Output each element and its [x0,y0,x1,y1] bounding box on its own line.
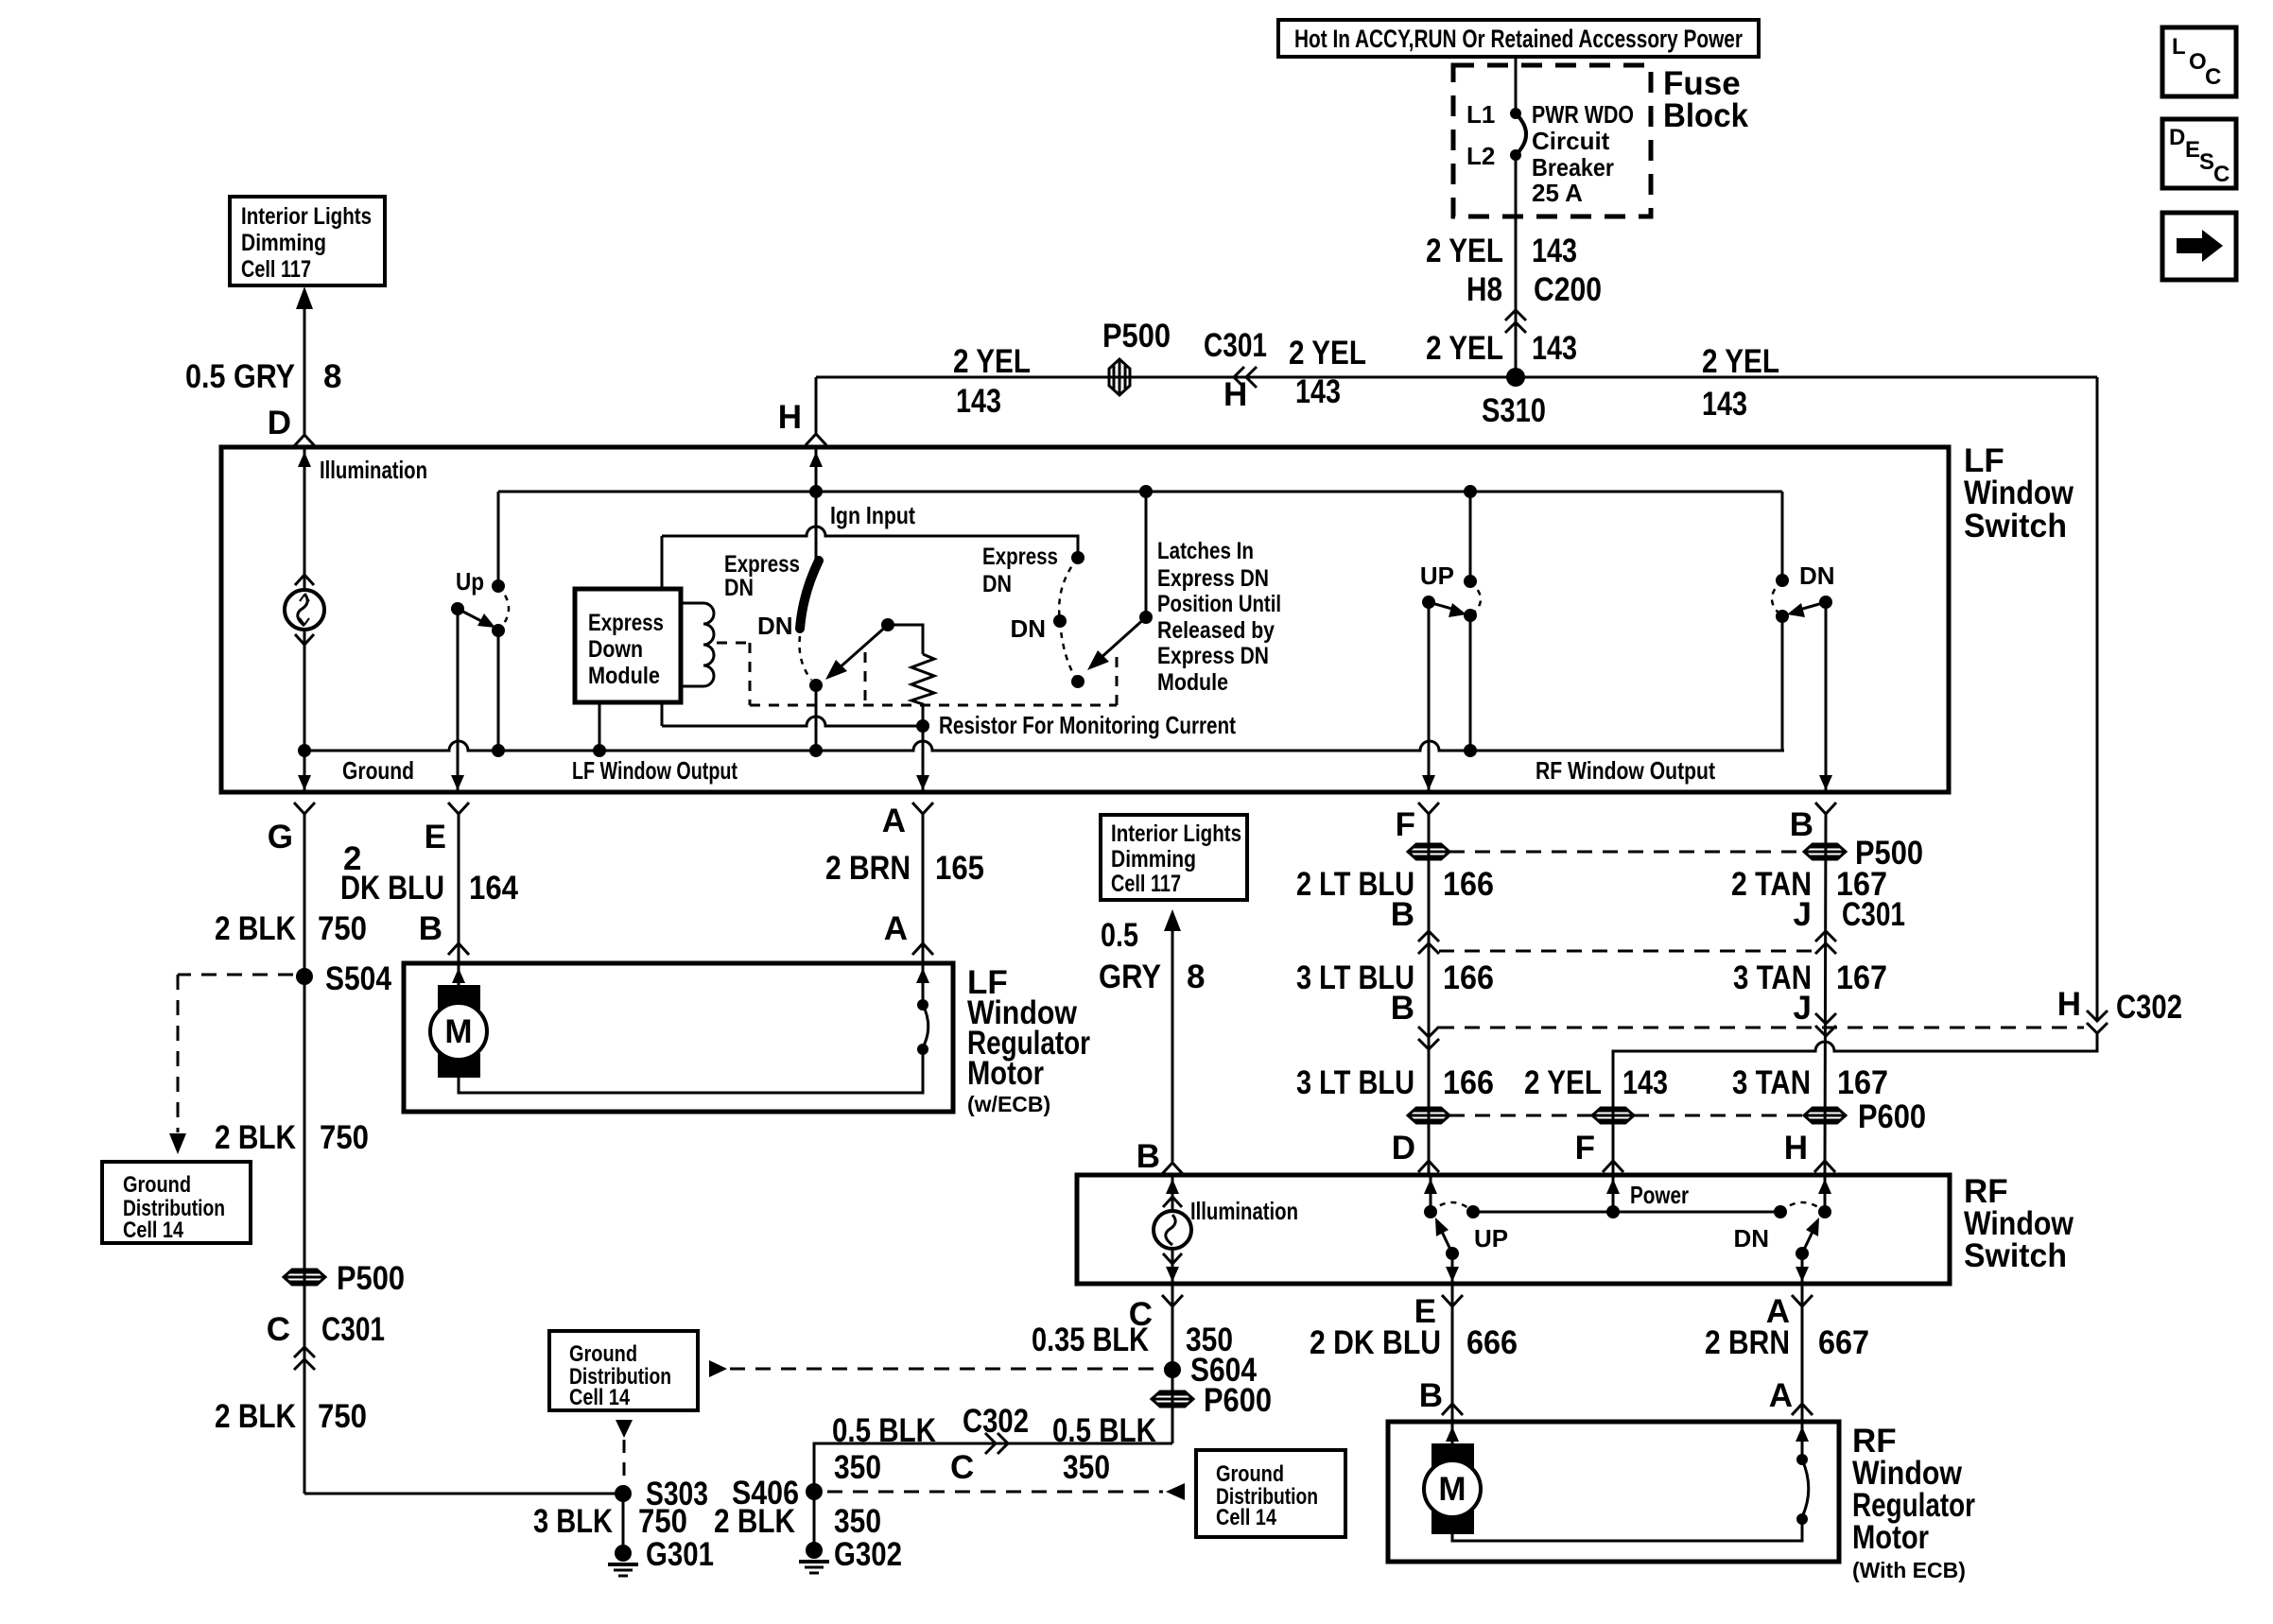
svg-text:164: 164 [469,870,518,907]
wire label 2 YEL 143 (right of S310) [1702,343,1779,423]
svg-text:8: 8 [323,358,341,395]
svg-text:H: H [778,399,802,436]
wire lamp to ground bus [304,630,306,751]
svg-text:H: H [1223,376,1247,413]
pin B chevron (RF switch) [1162,1163,1183,1174]
wire RF E pin to motor B [1451,1284,1454,1422]
lamp chevron above [295,575,314,585]
Up switch moving contact arrow [458,609,495,628]
pin G chevron [294,803,315,814]
wire Up lower contact to ground bus [497,631,500,751]
wire A pin to LF motor A [922,814,925,963]
svg-text:Cell 14: Cell 14 [569,1385,631,1410]
svg-text:C302: C302 [2116,989,2182,1026]
svg-text:143: 143 [1532,233,1577,269]
latch moving arrow [1087,617,1146,670]
svg-text:350: 350 [1063,1449,1110,1486]
svg-text:L: L [2172,34,2186,60]
svg-text:2 BRN: 2 BRN [1705,1324,1790,1361]
RF UP lower contact [1446,1247,1459,1260]
pin B chevron [1815,803,1836,814]
svg-text:Position Until: Position Until [1157,591,1281,617]
wire label 3 LT BLU 166 (lower) [1296,1064,1494,1101]
svg-text:166: 166 [1443,959,1494,996]
wire latch arm to resistor [888,625,923,654]
pin H chevron [806,434,826,445]
RF illumination lamp [1154,1211,1191,1249]
svg-text:Switch: Switch [1964,1237,2067,1274]
svg-text:750: 750 [638,1503,687,1540]
svg-text:(With ECB): (With ECB) [1852,1558,1966,1582]
wire ign junction down to express contact [815,492,818,560]
connector P500 (on B wire) [1804,844,1846,859]
svg-text:2 YEL: 2 YEL [1426,330,1503,367]
RF motor pin B chevron [1442,1404,1463,1415]
express latch arm arrow [825,625,888,680]
wire RF A pin to motor A [1801,1284,1804,1422]
connector P600 (on F wire) [1592,1108,1634,1123]
Express Down Module box [575,589,681,702]
RF A wire to box bottom (down arrow) [1796,1253,1809,1282]
svg-text:2 DK BLU: 2 DK BLU [1310,1324,1441,1361]
svg-text:(w/ECB): (w/ECB) [967,1092,1050,1116]
connector P600 (on D wire) [1408,1108,1449,1123]
pin F chevron [1418,803,1439,814]
module relay coil [681,603,714,686]
wire D pin to interior lights [304,309,306,434]
svg-text:2 YEL: 2 YEL [953,343,1031,380]
connector C301 chevrons (B wire) [1815,931,1836,954]
svg-text:166: 166 [1443,1064,1494,1101]
Up switch lower contact [492,624,505,637]
svg-text:H: H [2057,986,2081,1023]
connector C301 chevrons (on G wire) [294,1347,315,1370]
svg-text:B: B [1790,806,1813,843]
svg-text:C200: C200 [1534,271,1602,308]
svg-text:Motor: Motor [1852,1519,1929,1556]
wire S303 to G301 [622,1494,625,1550]
wire label 2 LT BLU 166 [1296,866,1494,903]
svg-text:C: C [2213,162,2230,187]
ECB contact upper [917,999,928,1011]
wire label 2 YEL 143 (right of C301) [1289,335,1366,410]
svg-text:B: B [1136,1138,1160,1175]
svg-text:Hot In ACCY,RUN Or Retained Ac: Hot In ACCY,RUN Or Retained Accessory Po… [1294,25,1743,53]
LF Window Switch label [1964,442,2074,544]
svg-text:750: 750 [318,1398,367,1435]
svg-text:M: M [444,1013,472,1050]
svg-text:750: 750 [318,910,367,947]
svg-text:G302: G302 [834,1536,902,1573]
svg-text:2 BLK: 2 BLK [215,1119,296,1156]
pin D chevron [294,435,315,446]
wire ground bus to G pin (down arrow) [298,751,311,790]
Express Down Module label [588,610,664,689]
wire into RF motor A (up arrow) [1796,1422,1809,1460]
Up switch top contact [492,579,505,593]
wire ign bus corner down to DN switch [1781,492,1784,580]
wire label 2 BLK 750 (below C301) [215,1398,367,1435]
LF Window Regulator Motor box [404,963,953,1112]
LF motor label [967,964,1090,1116]
svg-text:25 A: 25 A [1532,179,1583,207]
RF motor M symbol [1424,1443,1481,1534]
arrow below middle ground box [616,1420,633,1438]
RF Window Switch box [1077,1175,1950,1284]
pin C chevron (RF switch) [1162,1295,1183,1306]
Ign Input bus wire [498,491,1782,493]
svg-text:167: 167 [1837,1064,1888,1101]
wire RF B pin to interior lights [1171,931,1174,1162]
RF illumination wire (up arrow) [1166,1175,1179,1211]
wire E pin to LF motor B [458,814,460,963]
RF DN moving arrow [1802,1218,1819,1253]
svg-text:Module: Module [588,663,660,689]
svg-text:0.35 BLK: 0.35 BLK [1032,1322,1149,1358]
connector C200 pin H8 [1466,271,1602,308]
right express mid contact [1053,614,1067,628]
svg-text:2 YEL: 2 YEL [1289,335,1366,371]
svg-text:0.5 BLK: 0.5 BLK [832,1412,936,1449]
connector C302 chevrons (right wire) [2087,1011,2108,1033]
arrow to ground distribution box [169,1133,186,1154]
dashed link P500 pair [1449,851,1804,854]
fuse block label [1663,65,1749,134]
express latch arm contact [881,618,894,631]
wire bottom run to S303 [304,1493,623,1495]
svg-text:2 YEL: 2 YEL [1702,343,1779,380]
dashed wire to S303 [623,1440,626,1486]
pin F chevron (RF switch) [1603,1161,1623,1172]
svg-text:DN: DN [1799,561,1835,590]
svg-text:Interior Lights: Interior Lights [1111,821,1241,847]
svg-text:0.5: 0.5 [1101,917,1138,954]
pin A chevron (RF switch) [1792,1295,1813,1306]
svg-text:H8: H8 [1466,271,1502,308]
wire label 2 TAN 167 [1731,866,1887,903]
DN switch moving arrow [1787,602,1826,617]
dashed link C301 pair [1439,950,1815,953]
UP switch moving arrow [1429,602,1466,617]
svg-text:Ground: Ground [123,1172,191,1198]
svg-text:Cell 14: Cell 14 [123,1218,184,1243]
svg-text:B: B [1391,990,1414,1027]
wire Ign bus corner down to Up switch [497,492,500,586]
wire DN lower contact to ground bus end [1781,616,1784,751]
DN switch dashed arc [1772,580,1782,616]
RF DN dashed arc [1780,1202,1825,1212]
svg-text:C301: C301 [321,1311,385,1348]
dashed mechanical link: coil to switch [717,643,1117,705]
svg-text:M: M [1438,1471,1466,1508]
wire motor bottom loop [459,1049,923,1093]
RF ECB contact upper [1796,1454,1808,1465]
wire resistor junction to A pin (crosses bus, down arrow) [916,726,929,790]
svg-text:P600: P600 [1858,1098,1926,1135]
wire C run left to S406 [814,1443,1172,1492]
connector P500 (on G wire) [284,1260,405,1297]
svg-text:666: 666 [1466,1324,1518,1361]
RF ECB contact lower [1796,1513,1808,1525]
junction bus / express wire [809,744,823,757]
circuit breaker L1-L2 [1510,108,1526,161]
right express lower contact [1071,675,1084,688]
svg-text:Motor: Motor [967,1055,1044,1092]
UP switch lower contact [1464,609,1477,622]
wire label 0.35 BLK 350 [1032,1322,1233,1358]
svg-text:3 TAN: 3 TAN [1732,1064,1811,1101]
ign feed line to right express switch (hop over express wire) [662,527,1078,558]
wire ign bus down to UP switch (RF side) [1469,492,1472,581]
pin E chevron [448,803,469,814]
arrow into interior lights box [296,286,313,309]
svg-text:F: F [1396,806,1415,843]
svg-text:PWR WDO: PWR WDO [1532,100,1634,129]
UP switch dashed arc [1470,581,1481,615]
svg-text:C: C [950,1449,974,1486]
pin H chevron (RF switch) [1814,1161,1835,1172]
connector C302 chevrons (B wire) [1815,1013,1836,1036]
svg-text:DK BLU: DK BLU [340,870,444,907]
svg-text:D: D [2169,125,2185,150]
right express switch top contact [1071,551,1084,564]
wire UP lower contact to ground bus [1469,615,1472,751]
connector P600 (on C wire) [1152,1382,1272,1419]
express DN thick contact bar [800,561,819,629]
svg-text:Breaker: Breaker [1532,153,1614,181]
connector C302 chevrons (bottom run) [985,1433,1008,1454]
svg-text:A: A [882,803,906,839]
wire S406 to G302 [813,1492,816,1547]
svg-text:DN: DN [757,612,793,640]
junction Ign bus / H wire [809,485,823,498]
Interior Lights Dimming Cell 117 box (left) [230,197,385,285]
svg-text:E: E [425,819,446,855]
svg-text:A: A [884,910,908,947]
junction resistor line / A wire [916,719,929,733]
svg-text:DN: DN [1733,1224,1769,1253]
RF UP dashed arc [1431,1202,1473,1212]
right express dashed arc upper [1059,558,1078,621]
ECB contact arc [922,1005,928,1049]
RF F wire into box (up arrow) [1606,1175,1620,1212]
arrow right of middle ground box [709,1360,727,1377]
svg-text:Cell 14: Cell 14 [1216,1505,1277,1530]
UP switch left contact [1422,596,1435,609]
splice S406 [732,1475,823,1512]
RF motor pin A chevron [1792,1404,1813,1415]
svg-text:D: D [1392,1130,1415,1166]
svg-text:C301: C301 [1204,327,1267,364]
svg-text:S504: S504 [325,960,391,997]
wire ign bus to latch moving contact [1145,492,1148,617]
resistor monitor line (hop over express wire) [662,717,923,726]
wire label 0.5 GRY 8 (RF illumination) [1099,917,1205,995]
wire H pin down to Ign bus (up arrow) [809,447,823,492]
svg-text:Ground: Ground [569,1341,637,1367]
RF ECB contact arc [1801,1460,1809,1519]
svg-text:0.5 BLK: 0.5 BLK [1052,1412,1156,1449]
RF Window Regulator Motor box [1388,1422,1839,1562]
wire label 2 DK BLU 164 [340,840,518,907]
svg-text:B: B [419,910,442,947]
svg-text:667: 667 [1818,1324,1869,1361]
motor M symbol [430,985,487,1078]
wire label 3 TAN 167 (lower) [1732,1064,1888,1101]
svg-text:2 BRN: 2 BRN [825,850,911,887]
DESC box [2162,119,2236,188]
connector P500 (inline, vertical) [1102,318,1171,395]
svg-text:Up: Up [456,567,484,596]
svg-text:Released by: Released by [1157,617,1275,644]
motor pin B chevron [448,943,469,955]
wire G pin down left column [304,814,306,1494]
lamp chevron below [295,634,314,645]
RF UP switch top contact [1424,1205,1437,1218]
wire label 2 YEL 143 (below C200) [1426,330,1577,367]
connector C200 chevrons [1505,310,1526,333]
svg-text:O: O [2189,49,2207,75]
svg-text:143: 143 [1622,1064,1668,1101]
splice S604 [1164,1352,1257,1389]
svg-text:350: 350 [834,1449,881,1486]
svg-text:Block: Block [1663,97,1749,134]
svg-text:GRY: GRY [1099,959,1161,995]
svg-text:F: F [1575,1130,1595,1166]
connector C301 chevrons (on power bus) [1234,367,1257,388]
connector C302 pin H + label [2057,986,2182,1026]
dashed wire S504 to ground distribution [178,975,293,1132]
arrow into middle interior lights box [1164,909,1181,931]
wire into motor B (up arrow) [452,963,465,987]
svg-text:143: 143 [1702,386,1747,423]
connector C302 label + pin C (bottom run) [950,1403,1029,1486]
wire label 2 BRN 667 [1705,1324,1869,1361]
express DN dashed moving arc [800,636,812,680]
svg-text:D: D [268,405,291,441]
RF lamp chevron below [1163,1253,1182,1264]
wire into motor A (up arrow) [916,963,929,1005]
svg-text:UP: UP [1474,1224,1508,1253]
wire module bottom to resistor line [661,702,664,726]
svg-text:J: J [1794,990,1812,1027]
svg-text:S310: S310 [1482,392,1546,429]
svg-text:3 LT BLU: 3 LT BLU [1296,1064,1414,1101]
wire C302 H corner to RF F pin (hop over B wire) [1613,1033,2097,1173]
LF Window Switch box [221,447,1949,792]
RF DN top contact [1818,1205,1831,1218]
splice S310 [1482,368,1546,429]
junction bus / module wire [593,744,606,757]
svg-text:J: J [1794,896,1812,933]
svg-text:2 YEL: 2 YEL [1426,233,1503,269]
svg-text:350: 350 [834,1503,881,1540]
Ground Distribution Cell 14 box (right) [1196,1450,1345,1537]
motor pin A chevron [912,943,933,955]
wire label 0.5 GRY 8 [185,358,341,395]
svg-text:143: 143 [1295,373,1341,410]
wire label 2 BRN 165 [825,850,984,887]
RF lamp chevron above [1163,1197,1182,1207]
fuse block dashed box [1453,65,1651,216]
connector P500 (on F wire) [1408,844,1449,859]
svg-text:Express DN: Express DN [1157,565,1269,592]
RF power line [1473,1211,1780,1214]
UP switch top contact [1464,575,1477,588]
DN switch top contact [1776,574,1789,587]
RF UP moving arrow [1435,1218,1452,1253]
Latches In Express DN text [1157,538,1281,696]
wire label 2 BLK 750 (above S504) [215,910,367,947]
wire LF F pin down to RF D pin [1428,814,1431,1173]
svg-text:C302: C302 [963,1403,1029,1440]
wire DN right contact to B pin (down arrow) [1819,602,1832,790]
svg-text:0.5 GRY: 0.5 GRY [185,358,295,395]
svg-text:Switch: Switch [1964,508,2067,544]
connector C302 chevrons (F wire) [1418,1027,1439,1049]
junction power line / F wire [1606,1205,1620,1218]
svg-text:2 YEL: 2 YEL [1524,1064,1602,1101]
svg-text:P600: P600 [1204,1382,1272,1419]
svg-text:Ign Input: Ign Input [830,501,915,529]
svg-text:166: 166 [1443,866,1494,903]
svg-text:143: 143 [1532,330,1577,367]
wire label 2 YEL 143 (left of P500) [953,343,1031,420]
Interior Lights Dimming Cell 117 box (middle) [1101,815,1247,900]
illumination wire (inside LF box) [298,447,311,590]
svg-text:Express: Express [982,544,1058,570]
wire label 3 LT BLU 166 [1296,959,1494,996]
pin D chevron (RF switch) [1418,1161,1439,1172]
pin E chevron (RF switch) [1442,1295,1463,1306]
ground bus wire with hops over E, A, F wires [304,741,1784,751]
RF motor label [1852,1423,1975,1582]
svg-text:L1: L1 [1466,100,1495,129]
wire label 3 TAN 167 [1733,959,1887,996]
ECB contact lower [917,1044,928,1055]
svg-text:Illumination: Illumination [320,456,427,484]
wire label 2 YEL 143 (above C200) [1426,233,1577,269]
ground G302 [799,1536,902,1573]
DN switch right contact [1819,596,1832,609]
svg-text:P500: P500 [337,1260,405,1297]
connector P600 (on H wire) [1804,1108,1846,1123]
RF lamp wire to box bottom (down arrow) [1166,1249,1179,1282]
wire label 0.5 BLK 350 (right of C302) [1052,1412,1156,1486]
svg-text:165: 165 [935,850,984,887]
svg-text:Resistor For Monitoring Curren: Resistor For Monitoring Current [939,711,1236,739]
RF D wire into box (up arrow) [1424,1175,1437,1212]
LOC box [2162,27,2236,96]
svg-text:Latches In: Latches In [1157,538,1254,564]
svg-text:Ground: Ground [1216,1461,1284,1487]
svg-text:3 BLK: 3 BLK [533,1503,613,1540]
junction ign bus / UP wire [1464,485,1477,498]
svg-text:C: C [2205,64,2221,90]
svg-text:Power: Power [1630,1181,1689,1209]
junction bus / UP wire [1464,744,1477,757]
dashed link C302 (to right H pin) [1439,1027,2084,1029]
connector C301 pin J + label [1794,896,1905,933]
wire from banner to fuse block [1515,57,1518,113]
power bus wire from H corner to right edge [816,376,2097,379]
svg-text:Interior Lights: Interior Lights [241,203,372,230]
arrow left of right ground box [1166,1483,1185,1500]
svg-text:2 BLK: 2 BLK [714,1503,795,1540]
svg-text:S: S [2199,149,2214,175]
wire module top to ign feed line [661,536,664,589]
svg-text:750: 750 [320,1119,369,1156]
